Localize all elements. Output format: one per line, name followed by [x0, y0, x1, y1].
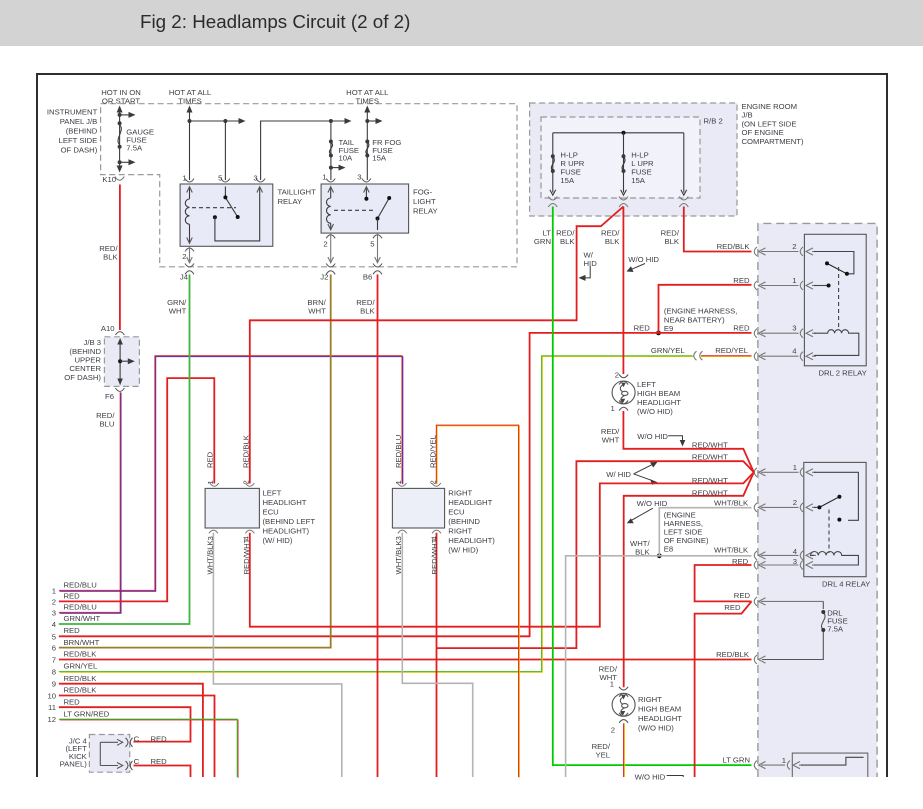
svg-text:LEFT: LEFT: [263, 489, 282, 498]
svg-text:HIGH BEAM: HIGH BEAM: [638, 705, 681, 714]
wire HOT AT ALL TIMES feed 2: [366, 107, 368, 180]
svg-text:W/O HID: W/O HID: [635, 772, 666, 781]
DRL 2 relay box: [804, 234, 866, 365]
svg-text:1: 1: [782, 756, 786, 765]
arrow down into K10: [117, 166, 123, 173]
svg-text:1: 1: [610, 680, 614, 689]
svg-text:RED/BLK: RED/BLK: [717, 242, 751, 251]
svg-text:RED: RED: [724, 603, 741, 612]
taillight relay common contact: [213, 215, 217, 219]
connector DRL4 pin4 boundary: [754, 551, 816, 560]
fog relay pin3 stem: [364, 187, 370, 201]
svg-text:2: 2: [52, 597, 56, 606]
label RED DRL2 pin1: [733, 276, 750, 285]
DRL fuse element: [762, 601, 825, 659]
wire RED/WHT right bulb pin 1 to DRL4 pin 1 (D): [624, 472, 754, 687]
svg-text:RED/BLU: RED/BLU: [64, 603, 97, 612]
svg-text:1: 1: [322, 173, 326, 182]
svg-text:WHT: WHT: [602, 436, 620, 445]
connector J2: [326, 264, 335, 275]
pin numbers DRL2: [792, 242, 797, 356]
connector bottom relay pin1 boundary: [754, 761, 803, 770]
label ENGINE ROOM J/B: [742, 102, 805, 146]
wire RED/BLU F6 to row 3: [60, 393, 121, 613]
svg-text:12: 12: [47, 715, 56, 724]
svg-text:RED/WHT: RED/WHT: [242, 538, 251, 574]
J/C 4 dashed box: [89, 735, 129, 773]
connector taillight pin 3: [256, 179, 265, 183]
svg-text:RIGHT: RIGHT: [448, 489, 472, 498]
svg-text:RED: RED: [151, 734, 168, 743]
row numbers 1-12: [47, 586, 56, 724]
svg-text:W/ HID: W/ HID: [606, 470, 631, 479]
DRL2 internal switch blade: [825, 261, 849, 275]
connector fog pin 2: [326, 235, 335, 239]
label J/C 4 LEFT KICK PANEL: [60, 736, 88, 768]
svg-text:(BEHIND LEFT: (BEHIND LEFT: [263, 517, 316, 526]
svg-text:10: 10: [47, 692, 56, 701]
svg-text:HEADLIGHT: HEADLIGHT: [637, 398, 681, 407]
label RIGHT HIGH BEAM HEADLIGHT: [638, 695, 682, 733]
label DRL FUSE 7.5A: [827, 609, 848, 634]
svg-text:(ON LEFT SIDE: (ON LEFT SIDE: [742, 119, 797, 128]
svg-text:OR START: OR START: [102, 97, 140, 106]
annotation arrow W/ HID near R/B2: [579, 266, 591, 281]
svg-text:WHT/BLK: WHT/BLK: [206, 539, 215, 574]
svg-text:RED: RED: [734, 591, 751, 600]
left high beam headlight bulb: [612, 381, 635, 404]
annotation marker W/O HID bottom right: [667, 776, 684, 778]
svg-text:RED/WHT: RED/WHT: [430, 538, 439, 574]
svg-text:HEADLIGHT: HEADLIGHT: [263, 498, 307, 507]
connector right ECU pin 2: [432, 483, 441, 486]
label RED at E9: [634, 324, 651, 333]
DRL4 internal pin1 path: [814, 472, 858, 520]
label LEFT HEADLIGHT ECU: [263, 489, 316, 546]
svg-text:RED/BLK: RED/BLK: [716, 650, 750, 659]
svg-text:(W/O HID): (W/O HID): [638, 724, 674, 733]
svg-text:1: 1: [394, 480, 403, 484]
wire RED/WHT left bulb pin 1 to DRL4 pin 1 (A): [623, 411, 753, 472]
wire WHT/BLK E8 to DRL4 pin 4: [566, 556, 752, 777]
svg-text:YEL: YEL: [595, 751, 610, 760]
label INSTRUMENT PANEL J/B: [47, 108, 98, 155]
node feed1 junction a: [188, 119, 192, 123]
svg-text:E9: E9: [664, 324, 673, 333]
DRL4 internal pin2 path: [814, 506, 818, 508]
right headlight ECU box: [392, 488, 444, 528]
svg-text:7.5A: 7.5A: [126, 144, 143, 153]
svg-text:LT GRN: LT GRN: [723, 756, 750, 765]
svg-text:RED: RED: [64, 592, 81, 601]
pin number bottom relay 1: [782, 756, 786, 765]
svg-text:(W/O HID): (W/O HID): [637, 407, 673, 416]
node E9 junction: [656, 331, 661, 336]
svg-text:ECU: ECU: [448, 508, 464, 517]
svg-text:RED/WHT: RED/WHT: [692, 441, 728, 450]
svg-text:HID: HID: [584, 259, 598, 268]
connector J4: [185, 264, 194, 275]
svg-text:3: 3: [793, 557, 797, 566]
connector DRL4 pin2 boundary: [754, 503, 816, 512]
R/B 2 inner dashed box: [541, 117, 700, 198]
label RED DRL fuse top: [734, 591, 751, 600]
rotated pin labels left ECU bottom: [206, 536, 251, 541]
label right bulb pin 2: [611, 726, 615, 735]
label LEFT HIGH BEAM HEADLIGHT: [637, 380, 681, 416]
wire H-LP R UPR fuse drop: [550, 133, 556, 195]
wire RED DRL4 pin 3 to DRL fuse: [695, 565, 752, 601]
svg-text:3: 3: [206, 536, 215, 540]
label LT GRN bottom: [723, 756, 750, 765]
label W/O HID wire A: [637, 432, 668, 441]
DRL4 internal contact dot: [837, 518, 841, 522]
wire RED/BLK left ECU pin 2 to H-LP L UPR fuse: [250, 207, 624, 484]
svg-text:1: 1: [206, 480, 215, 484]
DRL2 coil: [814, 330, 859, 356]
svg-text:1: 1: [793, 463, 797, 472]
wire RED row 11 to J/C4: [59, 707, 191, 741]
rotated wire label WHT/BLK left ECU pin3: [206, 539, 215, 574]
label F6: [105, 392, 114, 401]
svg-text:2: 2: [241, 480, 250, 484]
annotation fork W/ HID at DRL4: [634, 462, 658, 485]
node tail fuse junction: [329, 119, 333, 123]
label DRL 2 RELAY: [819, 369, 867, 378]
label RED/BLU F6 wire: [96, 411, 115, 429]
rotated wire label RED left ECU pin1: [206, 451, 215, 468]
label GAUGE FUSE 7.5A: [126, 128, 154, 153]
wire RED/YEL right ECU pin 2 down: [437, 426, 519, 778]
svg-text:BLK: BLK: [103, 253, 118, 262]
svg-text:LT GRN/RED: LT GRN/RED: [64, 709, 110, 718]
svg-text:3: 3: [792, 324, 796, 333]
label R/B 2: [704, 117, 723, 126]
wire RED/YEL segment into DRL2 pin 4: [701, 356, 752, 358]
taillight relay coil bumps: [185, 199, 189, 224]
fog relay switch blade: [376, 196, 392, 221]
svg-text:11: 11: [48, 703, 56, 712]
rotated wire label RED/BLU right ECU pin1: [394, 435, 403, 468]
wire RED/BLK row 10: [59, 696, 215, 778]
connector right ECU pin 3: [398, 530, 407, 533]
FR FOG fuse element: [365, 140, 369, 158]
wire RED row 2 to left ECU pin 1: [59, 378, 214, 601]
svg-text:15A: 15A: [372, 154, 387, 163]
svg-text:5: 5: [218, 174, 222, 183]
arrow up on gauge feed: [117, 106, 123, 113]
svg-text:RED: RED: [206, 451, 215, 468]
connector F6: [115, 388, 124, 391]
label RED/BLK right feed wire: [661, 229, 680, 247]
left headlight ECU box: [205, 488, 259, 528]
svg-text:RED: RED: [733, 324, 750, 333]
svg-text:TIMES: TIMES: [356, 97, 380, 106]
node below gauge fuse: [118, 160, 122, 164]
wire BRN/WHT J2 to row 6: [59, 275, 331, 648]
svg-text:2: 2: [182, 252, 186, 261]
row wire labels 1-12: [64, 581, 110, 719]
annotation arrow W/O HID at DRL4 pin2: [627, 508, 653, 523]
svg-text:DRL 4 RELAY: DRL 4 RELAY: [822, 580, 870, 589]
rotated pin labels right ECU bottom: [394, 536, 438, 541]
label W/O HID: [628, 255, 659, 264]
J/C 4 internal bus: [100, 739, 122, 768]
label HOT AT ALL TIMES 2: [346, 88, 389, 106]
svg-text:GRN/YEL: GRN/YEL: [651, 346, 685, 355]
wire R/B2 right feed drop: [681, 133, 687, 195]
connector J/C4 top C: [126, 738, 133, 747]
right engine-compartment tall dashed box: [758, 223, 877, 777]
fog relay pin5 lead: [377, 233, 379, 263]
taillight relay coil line pin1: [187, 187, 193, 244]
svg-text:FOG-: FOG-: [413, 188, 433, 197]
svg-text:INSTRUMENT: INSTRUMENT: [47, 108, 98, 117]
svg-text:WHT/BLK: WHT/BLK: [714, 499, 749, 508]
connector right bulb pin2: [619, 713, 628, 723]
svg-text:TIMES: TIMES: [178, 97, 202, 106]
svg-text:GRN/YEL: GRN/YEL: [64, 662, 98, 671]
label GRN/YEL: [651, 346, 685, 355]
svg-text:LEFT SIDE: LEFT SIDE: [59, 136, 98, 145]
taillight relay mechanical dashed link: [192, 207, 236, 209]
DRL4 internal switch blade: [817, 495, 841, 510]
connector DRL2 pin1 boundary: [754, 281, 816, 290]
svg-text:GRN: GRN: [534, 237, 551, 246]
fog relay pin5 internal stem: [375, 219, 381, 231]
svg-text:LEFT: LEFT: [637, 380, 656, 389]
svg-text:BLK: BLK: [664, 237, 679, 246]
label RIGHT HEADLIGHT ECU: [448, 489, 495, 555]
label RED/BLK B6 wire: [356, 298, 375, 316]
label ENGINE HARNESS LEFT SIDE OF ENGINE E8: [664, 511, 709, 554]
label W/O HID bottom: [635, 772, 666, 781]
svg-text:15A: 15A: [631, 176, 646, 185]
rotated wire label RED/YEL right ECU pin2: [428, 434, 437, 468]
fog relay coil bumps: [327, 198, 331, 223]
svg-text:DRL 2 RELAY: DRL 2 RELAY: [819, 369, 867, 378]
svg-text:R/B 2: R/B 2: [704, 117, 723, 126]
svg-text:W/O HID: W/O HID: [628, 255, 659, 264]
svg-text:1: 1: [611, 404, 615, 413]
label HOT AT ALL TIMES 1: [169, 88, 212, 106]
svg-text:ENGINE ROOM: ENGINE ROOM: [742, 102, 798, 111]
svg-text:2: 2: [615, 371, 619, 380]
wire WHT/BLK branch to DRL4 pin 2: [659, 508, 751, 556]
svg-text:(W/ HID): (W/ HID): [263, 536, 293, 545]
fog pin2 arrow into J2: [328, 257, 334, 263]
label GRN/WHT J4 wire: [167, 298, 187, 316]
wire RED row 5 to DRL2 pin 3: [59, 333, 752, 636]
connector left bulb pin2: [619, 375, 628, 385]
DRL 4 relay box: [804, 462, 866, 576]
svg-text:(BEHIND: (BEHIND: [448, 517, 480, 526]
svg-text:OF ENGINE: OF ENGINE: [742, 128, 784, 137]
DRL4 coil on pin4 path: [811, 552, 859, 566]
connector taillight pin 2: [185, 248, 194, 252]
wire taillight pin 5 drop: [224, 121, 226, 180]
wire RED J/C4 bottom C: [134, 766, 191, 778]
connector right ECU pin 4: [432, 530, 441, 533]
svg-text:PANEL): PANEL): [60, 760, 88, 769]
bottom relay box (clipped): [792, 753, 868, 777]
svg-text:(BEHIND: (BEHIND: [66, 127, 98, 136]
fog relay mechanical dashed link: [334, 209, 374, 211]
wire branch arrow right below gauge fuse: [120, 159, 136, 165]
svg-text:2: 2: [611, 726, 615, 735]
svg-text:RED: RED: [64, 697, 81, 706]
label right bulb pin 1: [610, 680, 614, 689]
svg-text:1: 1: [792, 276, 796, 285]
DRL2 mechanical dashed link: [838, 267, 840, 327]
wire LT GRN/RED row 12: [60, 720, 238, 778]
label RED diagonal wire: [724, 603, 741, 612]
taillight relay box: [180, 184, 273, 246]
svg-text:RED/WHT: RED/WHT: [692, 489, 728, 498]
svg-text:PANEL J/B: PANEL J/B: [60, 117, 98, 126]
label RED/YEL DRL2 pin4: [715, 346, 749, 355]
svg-text:RED: RED: [732, 557, 749, 566]
svg-text:COMPARTMENT): COMPARTMENT): [742, 137, 805, 146]
node J/B 3 branch: [118, 359, 122, 363]
pin numbers taillight relay top: [182, 174, 257, 183]
connector DRL fuse bottom boundary: [754, 655, 765, 664]
connector R/B2 left output: [548, 197, 557, 208]
taillight relay pin3 internal path: [215, 187, 263, 241]
wire GRN/WHT J4 to row 4: [59, 275, 190, 625]
wire HOT AT ALL TIMES feed 1: [189, 107, 191, 180]
svg-text:TAILLIGHT: TAILLIGHT: [278, 188, 317, 197]
rotated pin labels right ECU top: [394, 480, 438, 484]
label LT GRN: [534, 229, 551, 247]
fog pin5 arrow into B6: [375, 257, 381, 263]
connector R/B2 middle output: [619, 197, 628, 208]
wire RED/YEL right bulb pin 2 down: [623, 723, 625, 777]
svg-text:RIGHT: RIGHT: [638, 695, 662, 704]
wire RED/WHT left ECU pin 4 to DRL4 pin 1 (C): [250, 472, 754, 626]
svg-text:RED/YEL: RED/YEL: [715, 346, 749, 355]
svg-text:RED/BLK: RED/BLK: [64, 650, 98, 659]
taillight pin2 arrow into J4: [187, 257, 193, 263]
fog relay pin2 lead: [330, 233, 332, 263]
connector left bulb pin1: [619, 401, 628, 411]
connector right ECU pin 1: [398, 483, 407, 486]
pin numbers fog bottom: [323, 240, 374, 249]
connector right bulb pin1: [619, 687, 628, 697]
svg-text:5: 5: [52, 632, 56, 641]
svg-text:7.5A: 7.5A: [827, 625, 844, 634]
svg-text:RED/YEL: RED/YEL: [428, 434, 437, 468]
pin number taillight pin 2: [182, 252, 186, 261]
label TAIL FUSE 10A: [339, 138, 360, 163]
connector DRL fuse top boundary: [754, 597, 823, 606]
svg-text:K10: K10: [102, 175, 116, 184]
svg-text:RED: RED: [151, 757, 168, 766]
svg-text:RED: RED: [64, 626, 81, 635]
svg-text:BLU: BLU: [100, 420, 115, 429]
svg-text:C: C: [134, 734, 140, 743]
fog light relay box: [321, 184, 409, 233]
label left bulb pin 1: [611, 404, 615, 413]
label DRL 4 RELAY: [822, 580, 870, 589]
connector A10: [115, 332, 124, 335]
wire arrow right below tail fuse: [329, 165, 346, 171]
labels RED at J/C4: [151, 734, 168, 766]
svg-text:BLK: BLK: [360, 307, 375, 316]
svg-text:F6: F6: [105, 392, 114, 401]
wire WHT/BLK left ECU pin 3 down: [213, 533, 341, 777]
svg-text:2: 2: [792, 242, 796, 251]
svg-text:7: 7: [52, 656, 56, 665]
svg-text:3: 3: [357, 173, 361, 182]
svg-text:RELAY: RELAY: [278, 197, 303, 206]
label A10: [101, 324, 115, 333]
svg-text:HEADLIGHT: HEADLIGHT: [638, 714, 682, 723]
connector R/B2 right output: [679, 197, 688, 208]
label RED DRL4 pin3: [732, 557, 749, 566]
label WHT/BLK E8 wire: [630, 539, 651, 557]
taillight relay pin2 lead: [189, 246, 191, 263]
label HOT IN ON OR START: [101, 88, 141, 106]
label J/B 3: [64, 338, 101, 382]
label RED/WHT right bulb wire: [599, 665, 618, 683]
rotated wire label RED/WHT left ECU pin4: [242, 538, 251, 574]
connector left ECU pin 3: [209, 530, 218, 533]
fog relay coil line pin1: [328, 187, 334, 231]
connector fog pin 3: [362, 179, 371, 183]
connector left ECU pin 1: [210, 483, 219, 486]
wire RED/BLK fuse to left bulb pin 2 (W/O HID): [622, 207, 624, 375]
engine room J/B outer dashed box: [530, 103, 737, 216]
connector left ECU pin 2: [245, 483, 254, 486]
taillight relay pin5 stem: [224, 187, 226, 198]
wire RED/BLK B6 down: [377, 275, 379, 778]
rotated wire label RED/BLK left ECU pin2: [241, 434, 250, 468]
svg-text:(W/ HID): (W/ HID): [448, 546, 478, 555]
label left bulb pin 2: [615, 371, 619, 380]
label WHT/BLK DRL4 pin4: [714, 546, 749, 555]
instrument panel J/B dashed box: [101, 104, 517, 267]
rotated wire label RED/WHT right ECU pin4: [430, 538, 439, 574]
wire RED/BLK right feed to DRL2 pin 2: [684, 207, 752, 252]
svg-text:RELAY: RELAY: [413, 207, 438, 216]
label RED/BLK DRL2 pin2: [717, 242, 751, 251]
wire RED/BLK row 7 to DRL fuse: [59, 659, 752, 661]
label BRN/WHT J2 wire: [307, 298, 326, 316]
svg-text:4: 4: [792, 347, 797, 356]
svg-text:4: 4: [793, 547, 798, 556]
svg-text:GRN/WHT: GRN/WHT: [64, 614, 101, 623]
wire branch arrow right from feed 2: [367, 118, 382, 124]
svg-text:2: 2: [793, 498, 797, 507]
svg-text:WHT: WHT: [169, 307, 187, 316]
label RED/BLK wo hid wire: [601, 229, 620, 247]
svg-text:W/O HID: W/O HID: [637, 432, 668, 441]
labels C at J/C4: [134, 734, 140, 766]
annotation marker W/O HID above wire A: [668, 436, 685, 447]
svg-text:6: 6: [52, 644, 56, 653]
svg-text:RED/BLU: RED/BLU: [394, 435, 403, 468]
svg-text:WHT/BLK: WHT/BLK: [714, 546, 749, 555]
label H-LP L UPR FUSE 15A: [631, 151, 654, 185]
svg-text:RED/BLK: RED/BLK: [64, 686, 98, 695]
svg-text:J/B: J/B: [742, 111, 753, 120]
svg-text:5: 5: [370, 240, 374, 249]
svg-text:HEADLIGHT: HEADLIGHT: [448, 498, 492, 507]
svg-text:WHT: WHT: [308, 307, 326, 316]
arrow up on feed 1: [187, 106, 193, 113]
svg-text:C: C: [134, 757, 140, 766]
